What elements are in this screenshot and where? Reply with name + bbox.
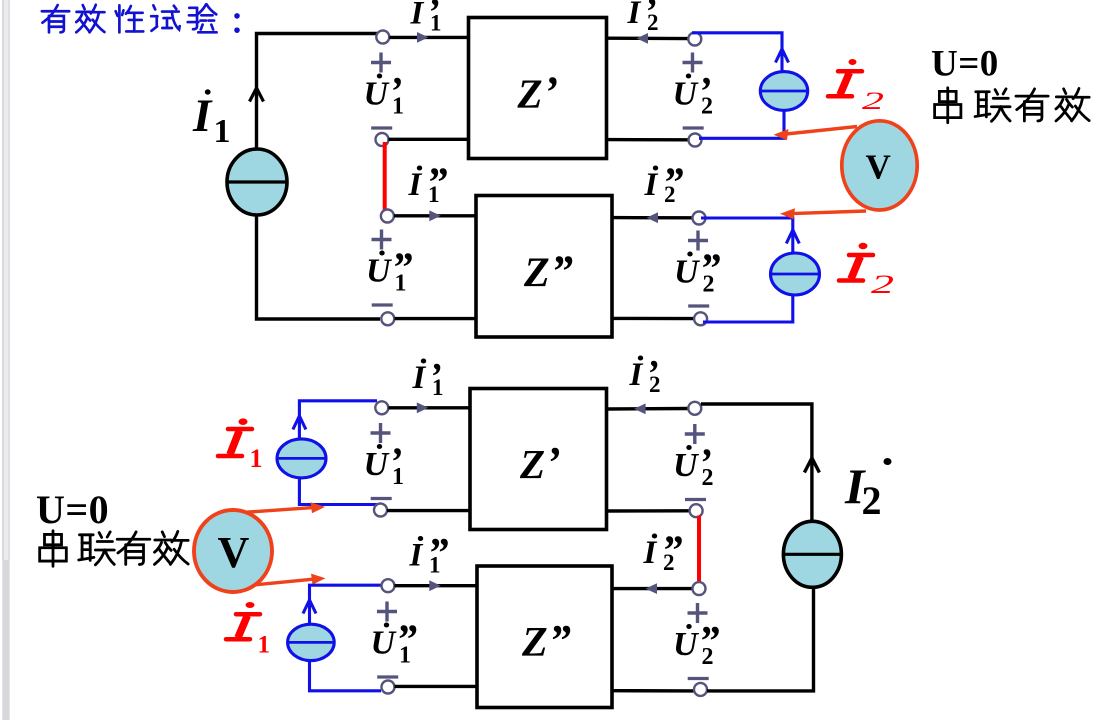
wire I2 bottom (bottom circuit) bbox=[707, 587, 814, 691]
current source I1'' bbox=[288, 624, 335, 660]
red series link bottom bbox=[697, 516, 701, 585]
node 3 of Z'' output bbox=[693, 212, 706, 225]
svg-text:”: ” bbox=[551, 247, 573, 296]
label U'1 (bottom) bbox=[364, 423, 405, 499]
svg-text:1: 1 bbox=[429, 553, 441, 578]
two-port network Z'' (bottom) bbox=[477, 566, 612, 708]
svg-text:U: U bbox=[673, 626, 700, 663]
wire I2 top (bottom circuit) bbox=[701, 404, 812, 522]
wire node to Z' pin 2 bbox=[389, 138, 471, 141]
arrow I'1 bbox=[417, 32, 429, 43]
wire Z'' pin 3 to node (bottom) bbox=[612, 587, 692, 590]
node 3 of Z' output (bottom) bbox=[688, 402, 701, 415]
blue wire I1' return bbox=[299, 478, 377, 505]
svg-text:2: 2 bbox=[664, 182, 676, 207]
svg-text:1: 1 bbox=[428, 182, 440, 207]
wire node to Z' pin 1 (bottom) bbox=[389, 406, 471, 409]
red lead to voltmeter top bbox=[774, 127, 858, 141]
node 4 of Z'' output (bottom) bbox=[694, 683, 707, 696]
label U'1 bbox=[364, 53, 405, 129]
svg-text:1: 1 bbox=[430, 11, 442, 36]
current source I1 bbox=[227, 149, 287, 215]
current source I1' bbox=[277, 439, 326, 478]
current source I2'' bbox=[771, 253, 820, 295]
svg-text:I: I bbox=[409, 538, 424, 574]
svg-text:1: 1 bbox=[392, 94, 404, 120]
svg-text:U: U bbox=[364, 446, 391, 483]
svg-text:2: 2 bbox=[703, 272, 715, 298]
label U''1 (bottom) bbox=[371, 602, 418, 678]
svg-text:Z: Z bbox=[517, 71, 543, 117]
label I'1 (bottom) bbox=[412, 356, 444, 400]
label I1 (upper, red) bbox=[218, 418, 263, 473]
label U'2 bbox=[673, 53, 714, 129]
svg-text:2: 2 bbox=[702, 465, 714, 491]
node 2 of Z'' input (bottom) bbox=[382, 681, 395, 694]
two-port network Z' bbox=[469, 18, 607, 159]
voltmeter V (top) bbox=[842, 121, 917, 210]
label U''2 (bottom) bbox=[673, 603, 720, 679]
wire node to Z'' pin 1 (bottom) bbox=[395, 584, 478, 587]
wire node to Z' pin 1 bbox=[390, 36, 469, 39]
label U'2 (bottom) bbox=[673, 424, 714, 500]
node 4 of Z'' output bbox=[694, 312, 707, 325]
red lead to voltmeter top (bottom circuit) bbox=[228, 502, 325, 513]
svg-text:1: 1 bbox=[399, 643, 411, 669]
arrow on I1'' wire bbox=[303, 600, 316, 614]
svg-text:1: 1 bbox=[392, 464, 404, 490]
label I2 (top, red) bbox=[828, 59, 884, 115]
label 串联有效 (bottom) bbox=[40, 531, 188, 567]
arrow I''2 (bottom) bbox=[646, 583, 658, 594]
svg-text:2: 2 bbox=[871, 270, 894, 299]
node 3 of Z' output bbox=[688, 33, 701, 46]
node 2 of Z' input (bottom) bbox=[374, 504, 387, 517]
voltmeter V (bottom) bbox=[194, 510, 272, 592]
svg-text:V: V bbox=[218, 528, 250, 577]
svg-text:’: ’ bbox=[544, 68, 559, 117]
red series link top bbox=[383, 142, 387, 210]
blue wire I1'' return bbox=[310, 661, 382, 691]
label I1 (lower, red) bbox=[226, 602, 270, 658]
current source I2' bbox=[760, 72, 807, 111]
blue wire I2'' loop bbox=[701, 218, 793, 254]
arrow on I1' wire bbox=[293, 416, 306, 430]
arrow I'1 (bottom) bbox=[417, 402, 429, 413]
node 1 of Z'' input bbox=[381, 210, 394, 223]
node 2 of Z'' input bbox=[381, 312, 394, 325]
svg-text:U: U bbox=[673, 447, 700, 484]
svg-text:Z: Z bbox=[519, 441, 545, 487]
wire node to Z' pin 2 (bottom) bbox=[387, 509, 470, 512]
arrow on I2 wire bbox=[804, 458, 819, 473]
label U''1 bbox=[366, 230, 413, 306]
svg-text:U: U bbox=[371, 625, 398, 662]
svg-text:U: U bbox=[364, 76, 391, 113]
svg-text:I: I bbox=[627, 0, 642, 31]
arrow on I2' wire bbox=[776, 49, 789, 63]
svg-text:I: I bbox=[410, 0, 425, 32]
blue wire I2' loop bbox=[692, 33, 782, 72]
svg-text:I: I bbox=[643, 535, 658, 571]
label I'2 (bottom) bbox=[629, 353, 661, 397]
node 1 of Z' input bbox=[376, 31, 389, 44]
arrow I''1 bbox=[429, 210, 441, 221]
wire I1 top bbox=[257, 34, 378, 151]
svg-text:”: ” bbox=[549, 616, 571, 665]
wire Z' pin 3 to node bbox=[607, 37, 689, 41]
arrow I'2 bbox=[637, 33, 649, 44]
blue wire I2' return bbox=[699, 110, 784, 138]
wire Z'' pin 4 to node bbox=[612, 317, 694, 321]
wire Z' pin 4 to node (bottom) bbox=[607, 509, 690, 513]
blue wire I1' loop bbox=[299, 401, 377, 439]
wire node to Z'' pin 2 (bottom) bbox=[395, 685, 478, 688]
svg-text:2: 2 bbox=[663, 550, 675, 575]
arrow I'2 (bottom) bbox=[634, 403, 646, 414]
svg-text:1: 1 bbox=[432, 375, 444, 400]
two-port network Z' (bottom) bbox=[470, 389, 607, 530]
svg-text:2: 2 bbox=[862, 478, 882, 523]
current source I2 bbox=[783, 521, 841, 587]
svg-text:1: 1 bbox=[214, 113, 231, 150]
label I'2 bbox=[627, 0, 659, 35]
svg-text:2: 2 bbox=[647, 10, 659, 35]
svg-text:V: V bbox=[866, 148, 891, 187]
node 4 of Z' output bbox=[689, 134, 702, 147]
svg-text:1: 1 bbox=[395, 271, 407, 297]
red lead to voltmeter bottom bbox=[780, 208, 866, 219]
svg-text:I: I bbox=[408, 167, 423, 203]
wire Z' pin 3 to node (bottom) bbox=[607, 407, 689, 411]
label I1 bbox=[192, 89, 231, 150]
svg-text:I: I bbox=[192, 90, 213, 142]
wire I1 bottom bbox=[257, 215, 381, 319]
title 有效性试验: bbox=[42, 4, 240, 33]
arrow on I1 wire bbox=[250, 88, 264, 102]
wire Z'' pin 4 to node (bottom) bbox=[612, 689, 694, 693]
node 3 of Z'' output (bottom) bbox=[693, 582, 706, 595]
red lead to voltmeter bottom (bottom circuit) bbox=[228, 574, 326, 588]
svg-text:I: I bbox=[629, 357, 644, 393]
label 串联有效 (top) bbox=[935, 88, 1090, 123]
blue wire I1'' loop bbox=[310, 585, 382, 624]
label I''1 bbox=[408, 161, 448, 208]
arrow I''2 bbox=[647, 212, 659, 223]
label I''2 bbox=[644, 161, 684, 208]
label U''2 bbox=[674, 231, 721, 307]
label I'1 bbox=[410, 0, 442, 36]
wire node to Z'' pin 1 bbox=[394, 214, 476, 217]
arrow on I2'' wire bbox=[786, 230, 799, 244]
svg-text:U: U bbox=[674, 254, 701, 291]
two-port network Z'' bbox=[476, 196, 612, 338]
svg-text:1: 1 bbox=[258, 631, 271, 658]
node 1 of Z'' input (bottom) bbox=[382, 579, 395, 592]
svg-text:2: 2 bbox=[701, 94, 713, 120]
label I2 (bottom, red) bbox=[839, 243, 894, 299]
node 1 of Z' input (bottom) bbox=[375, 401, 388, 414]
label I''2 (bottom) bbox=[643, 529, 683, 576]
svg-text:’: ’ bbox=[546, 438, 561, 487]
svg-text:U: U bbox=[673, 76, 700, 113]
svg-text:2: 2 bbox=[649, 372, 661, 397]
label I2 (black) bbox=[844, 458, 892, 523]
svg-text:Z: Z bbox=[521, 620, 548, 666]
arrow I''1 (bottom) bbox=[429, 580, 441, 591]
svg-text:2: 2 bbox=[702, 644, 714, 670]
svg-text:U=0: U=0 bbox=[36, 487, 109, 532]
svg-text:I: I bbox=[412, 360, 427, 396]
label I''1 (bottom) bbox=[409, 531, 449, 578]
node 2 of Z' input bbox=[376, 133, 389, 146]
blue wire I2'' return bbox=[703, 295, 793, 322]
wire Z' pin 4 to node bbox=[607, 138, 689, 142]
wire Z'' pin 3 to node bbox=[612, 216, 692, 220]
svg-text:1: 1 bbox=[250, 444, 263, 473]
node 4 of Z' output (bottom) bbox=[690, 504, 703, 517]
svg-text:U: U bbox=[366, 253, 393, 290]
svg-text:2: 2 bbox=[862, 88, 884, 115]
svg-text:I: I bbox=[644, 167, 659, 203]
svg-text:U=0: U=0 bbox=[931, 44, 999, 85]
svg-text:Z: Z bbox=[523, 251, 550, 297]
wire node to Z'' pin 2 bbox=[395, 317, 477, 320]
